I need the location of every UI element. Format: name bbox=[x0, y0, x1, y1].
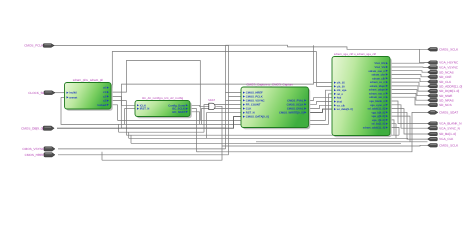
svg-text:sdram_clk: sdram_clk bbox=[372, 77, 385, 80]
wire areset net down bbox=[61, 97, 118, 124]
wire stub v131 bbox=[130, 135, 132, 143]
svg-text:SD_CKE: SD_CKE bbox=[439, 75, 451, 79]
wire bus y135 bbox=[126, 134, 399, 136]
input pin CMOS_PCLK bbox=[24, 44, 54, 48]
svg-text:CMOS_Capture:u_CMOS_Capture: CMOS_Capture:u_CMOS_Capture bbox=[246, 83, 293, 87]
svg-text:SD_NCAS: SD_NCAS bbox=[439, 70, 454, 74]
svg-text:FR_COUNT: FR_COUNT bbox=[246, 104, 261, 107]
wire u4 out row5 to pin bbox=[390, 78, 428, 81]
output pin SD_NRAS bbox=[428, 98, 454, 102]
svg-text:VGA_HSYNC: VGA_HSYNC bbox=[439, 61, 459, 65]
wire stub v128 bbox=[128, 132, 130, 138]
svg-text:SD_BA[1..0]: SD_BA[1..0] bbox=[439, 132, 456, 136]
output pin CMOS_XCLK bbox=[428, 47, 460, 51]
wire band to capture row4 bbox=[204, 105, 241, 133]
input pin CMOS_HREF bbox=[25, 153, 55, 157]
wire u4 row18 down bbox=[390, 127, 399, 135]
output pin VGA_BLANK_N bbox=[428, 122, 462, 126]
svg-text:CMOS_VSYNC: CMOS_VSYNC bbox=[246, 99, 265, 102]
svg-text:VGA_VSYNC: VGA_VSYNC bbox=[439, 66, 459, 70]
wire areset stub bbox=[61, 96, 65, 98]
svg-text:vga_blank_n: vga_blank_n bbox=[369, 100, 385, 103]
svg-text:CLK: CLK bbox=[246, 108, 252, 111]
wire stub u4 row1 bbox=[314, 82, 333, 84]
output pin SD_ADDR[11..0] bbox=[428, 84, 463, 88]
svg-text:vga_b[9..0]: vga_b[9..0] bbox=[371, 111, 385, 114]
svg-text:sdram_cs_n: sdram_cs_n bbox=[370, 81, 386, 84]
svg-text:sdram_cas_n: sdram_cas_n bbox=[368, 70, 385, 73]
wire u4 out row10 to pin bbox=[390, 97, 428, 105]
wire u4 out row7 to pin bbox=[390, 86, 428, 91]
svg-text:VGA_BLANK_N: VGA_BLANK_N bbox=[439, 122, 461, 126]
output pin SD_CLK bbox=[428, 80, 453, 84]
svg-text:CMOS_HREF: CMOS_HREF bbox=[25, 153, 45, 157]
module block PLL u1 bbox=[65, 78, 113, 111]
wire u4 out row2 to pin bbox=[390, 66, 428, 68]
wire i2c sdat to buffer bbox=[190, 105, 209, 106]
svg-text:CMOS_PCLK: CMOS_PCLK bbox=[246, 96, 263, 99]
svg-text:CMOS_PCLK: CMOS_PCLK bbox=[24, 44, 44, 48]
svg-text:CMOS_DATA[9..0]: CMOS_DATA[9..0] bbox=[246, 116, 269, 119]
wire u4 row16 down bbox=[390, 120, 394, 135]
wire buffer out down bbox=[216, 106, 222, 146]
output pin CMOS_SDAT bbox=[428, 111, 459, 115]
module block sdram_vga u4 bbox=[332, 52, 392, 137]
svg-text:SD_NRAS: SD_NRAS bbox=[439, 98, 454, 102]
svg-text:sdram_ldqm: sdram_ldqm bbox=[370, 85, 386, 88]
wire band to u4 row4 bbox=[329, 94, 333, 125]
output pin SD_DQM[1..0] bbox=[428, 89, 460, 93]
wire vert A lower bbox=[225, 93, 227, 149]
wire u4 out row4 to pin bbox=[390, 75, 428, 77]
output pin SD_CKE bbox=[428, 75, 452, 79]
wire bus under u4 bbox=[256, 141, 410, 143]
wire bus y160 bbox=[102, 146, 222, 160]
wire stub v102 bbox=[101, 152, 103, 160]
wire net CMOS_DATA bus bbox=[57, 117, 241, 129]
wire pll c0 up-across bbox=[112, 52, 316, 88]
svg-text:clk_25: clk_25 bbox=[337, 82, 345, 85]
svg-text:RST_N: RST_N bbox=[246, 112, 255, 115]
svg-text:wr_clk: wr_clk bbox=[337, 104, 346, 107]
svg-text:CMOS_DVAL: CMOS_DVAL bbox=[287, 108, 304, 111]
wire net CMOS_HREF bbox=[58, 154, 229, 156]
output pin SD_NCAS bbox=[428, 70, 454, 74]
svg-text:CMOS_SCLK: CMOS_SCLK bbox=[439, 143, 459, 147]
svg-text:clk_50: clk_50 bbox=[337, 85, 345, 88]
svg-text:c3: c3 bbox=[103, 100, 106, 103]
wire i2c sclk down bbox=[190, 109, 197, 121]
svg-text:areset: areset bbox=[69, 96, 77, 99]
svg-text:vga_r[9..0]: vga_r[9..0] bbox=[372, 119, 385, 122]
wire pll c0 stub bbox=[111, 87, 112, 89]
svg-text:CMOS_XCLK: CMOS_XCLK bbox=[287, 103, 304, 106]
wire CLOCK_50 to pll inclk0 bbox=[54, 92, 65, 94]
svg-text:sdram_udqm: sdram_udqm bbox=[369, 89, 386, 92]
wire net CMOS_SCLK run bbox=[222, 144, 428, 147]
svg-text:sdram_we_n: sdram_we_n bbox=[369, 96, 385, 99]
svg-text:VGA_VS: VGA_VS bbox=[374, 66, 385, 69]
wire vert x419 down bbox=[420, 49, 428, 62]
wire stub to capture VSYNC row bbox=[226, 99, 242, 101]
svg-text:sd_ba[1..0]: sd_ba[1..0] bbox=[371, 123, 385, 126]
svg-text:vga_g[9..0]: vga_g[9..0] bbox=[371, 115, 385, 118]
wire net CMOS_SDAT run bbox=[200, 112, 428, 151]
svg-text:rst_n: rst_n bbox=[337, 93, 344, 96]
wire pll c3 to band bbox=[111, 101, 126, 136]
output pin CMOS_SCLK bbox=[428, 143, 460, 147]
wire net to pin CMOS_XCLK bbox=[226, 45, 428, 49]
input pin CMOS_VSYNC bbox=[22, 147, 55, 151]
svg-text:I2C_SDAT: I2C_SDAT bbox=[172, 111, 185, 114]
svg-text:SD_NWE: SD_NWE bbox=[439, 94, 452, 98]
svg-text:wr_data[9..0]: wr_data[9..0] bbox=[337, 108, 353, 111]
wire u4 out row8 to pin bbox=[390, 90, 428, 96]
svg-text:c0: c0 bbox=[103, 87, 106, 90]
wire vert x316 to u4 row2 bbox=[317, 52, 333, 87]
wire vert x196 down bbox=[196, 120, 198, 151]
wire cap out3 to u4 bbox=[309, 105, 333, 108]
wire bus y143 bbox=[131, 142, 401, 144]
wire loop to i2c iCLK bbox=[122, 45, 314, 105]
wire bus y120 bbox=[118, 119, 326, 121]
output pin VGA_HSYNC bbox=[428, 61, 459, 65]
wire u4 out row14 to pin bbox=[390, 112, 428, 139]
wire iRST from areset bus bbox=[123, 109, 125, 125]
svg-text:CMOS_DB[9..0]: CMOS_DB[9..0] bbox=[21, 126, 43, 130]
svg-text:I2C_AV_Config:u_I2C_AV_Config: I2C_AV_Config:u_I2C_AV_Config bbox=[142, 97, 184, 100]
output pin SD_NCS bbox=[428, 103, 452, 107]
svg-text:SD_NCS: SD_NCS bbox=[439, 103, 452, 107]
wire vert B lower bbox=[228, 97, 230, 155]
output pin VGA_VSYNC bbox=[428, 66, 459, 70]
output pin VGA_SYNC_N bbox=[428, 126, 460, 130]
wire i2c sdat down bbox=[190, 112, 200, 125]
wire band to u4 row3 bbox=[326, 90, 333, 120]
wire net CMOS_PCLK to capture bbox=[53, 46, 241, 97]
svg-text:sd_addr[11..0]: sd_addr[11..0] bbox=[368, 108, 386, 111]
input pin CMOS_DATA bbox=[21, 126, 54, 130]
svg-text:VGA_SYNC_N: VGA_SYNC_N bbox=[439, 126, 460, 130]
svg-text:sdram_vga_ctrl:u_sdram_vga_ctr: sdram_vga_ctrl:u_sdram_vga_ctrl bbox=[334, 52, 377, 56]
output pin SD_BA[1..0] bbox=[428, 132, 457, 136]
wire u4 out row15 to pin bbox=[390, 116, 428, 142]
svg-text:sdram_addr[11..0]: sdram_addr[11..0] bbox=[363, 127, 385, 130]
wire pll locked down bbox=[111, 105, 118, 121]
svg-text:c1: c1 bbox=[103, 91, 106, 94]
svg-text:SDAT: SDAT bbox=[208, 99, 215, 102]
wire u4 out row1 to pin bbox=[390, 62, 428, 65]
wire bus y124 bbox=[118, 123, 329, 125]
module block I2C u2 bbox=[135, 97, 192, 118]
wire u4 row17 down bbox=[390, 124, 396, 139]
wire u4 out row11 to pin bbox=[390, 101, 428, 124]
wire bus y138 bbox=[129, 137, 408, 139]
wire bus y128 bbox=[121, 127, 225, 129]
wire u4 out row9 to pin bbox=[390, 93, 428, 100]
output pin VGA_CLK bbox=[428, 137, 455, 141]
svg-text:sdram_cke: sdram_cke bbox=[371, 74, 385, 77]
wire cap out4 bus to u4 bbox=[309, 109, 333, 112]
wire net CMOS_VSYNC bbox=[58, 148, 226, 150]
wire u4 out row13 to pin bbox=[390, 109, 428, 134]
svg-text:SD_CLK: SD_CLK bbox=[439, 80, 452, 84]
svg-text:CMOS_VSYNC: CMOS_VSYNC bbox=[22, 147, 44, 151]
wire pll c1 run y60.5 bbox=[111, 61, 200, 121]
wire vert A to capture HREF row bbox=[226, 45, 242, 92]
svg-text:vga_sync_n: vga_sync_n bbox=[370, 104, 385, 107]
output pin SD_NWE bbox=[428, 94, 453, 98]
wire u4 out row6 to pin bbox=[390, 82, 428, 86]
svg-text:SD_ADDR[11..0]: SD_ADDR[11..0] bbox=[439, 84, 462, 88]
wire stub bbox=[197, 151, 200, 153]
tri-state buffer SDAT bbox=[208, 99, 215, 110]
wire cap out2 to u4 bbox=[309, 102, 333, 105]
svg-text:iRST_N: iRST_N bbox=[140, 108, 150, 111]
svg-text:VGA_CLK: VGA_CLK bbox=[439, 137, 454, 141]
svg-text:SD_DQM[1..0]: SD_DQM[1..0] bbox=[439, 89, 459, 93]
svg-text:dval: dval bbox=[337, 101, 342, 104]
svg-text:CMOS_WRITE[9..0]: CMOS_WRITE[9..0] bbox=[279, 111, 304, 114]
svg-text:VGA_HS: VGA_HS bbox=[374, 62, 385, 65]
wire stub v118 bbox=[118, 124, 120, 132]
wire bus y132 bbox=[119, 131, 204, 133]
wire band to capture CLK bbox=[202, 109, 242, 125]
svg-text:c2: c2 bbox=[103, 95, 106, 98]
svg-text:CMOS_FVAL: CMOS_FVAL bbox=[287, 99, 304, 102]
wire u4 out row12 to pin bbox=[390, 105, 428, 128]
svg-text:CMOS_SDAT: CMOS_SDAT bbox=[439, 111, 458, 115]
svg-text:CMOS_XCLK: CMOS_XCLK bbox=[439, 47, 459, 51]
input pin CLOCK_50 bbox=[28, 91, 55, 95]
svg-text:CLOCK_50: CLOCK_50 bbox=[28, 91, 44, 95]
svg-text:inclk0: inclk0 bbox=[69, 92, 77, 95]
wire stub iRST bbox=[124, 108, 135, 110]
svg-text:sdram_pll:u_sdram_pll: sdram_pll:u_sdram_pll bbox=[73, 78, 104, 82]
wire u4 out row3 to pin bbox=[390, 71, 428, 73]
wire band to capture RST bbox=[207, 113, 242, 139]
svg-text:CMOS_HREF: CMOS_HREF bbox=[246, 92, 263, 95]
svg-text:clk_vga: clk_vga bbox=[337, 89, 347, 92]
svg-text:sdram_ras_n: sdram_ras_n bbox=[369, 92, 386, 95]
svg-text:fval: fval bbox=[337, 97, 342, 100]
module block CMOS_Capture u3 bbox=[241, 83, 310, 130]
wire pll c2 to band bbox=[111, 96, 121, 128]
svg-text:locked: locked bbox=[97, 104, 106, 107]
wire cap out1 to u4 bbox=[309, 98, 333, 101]
